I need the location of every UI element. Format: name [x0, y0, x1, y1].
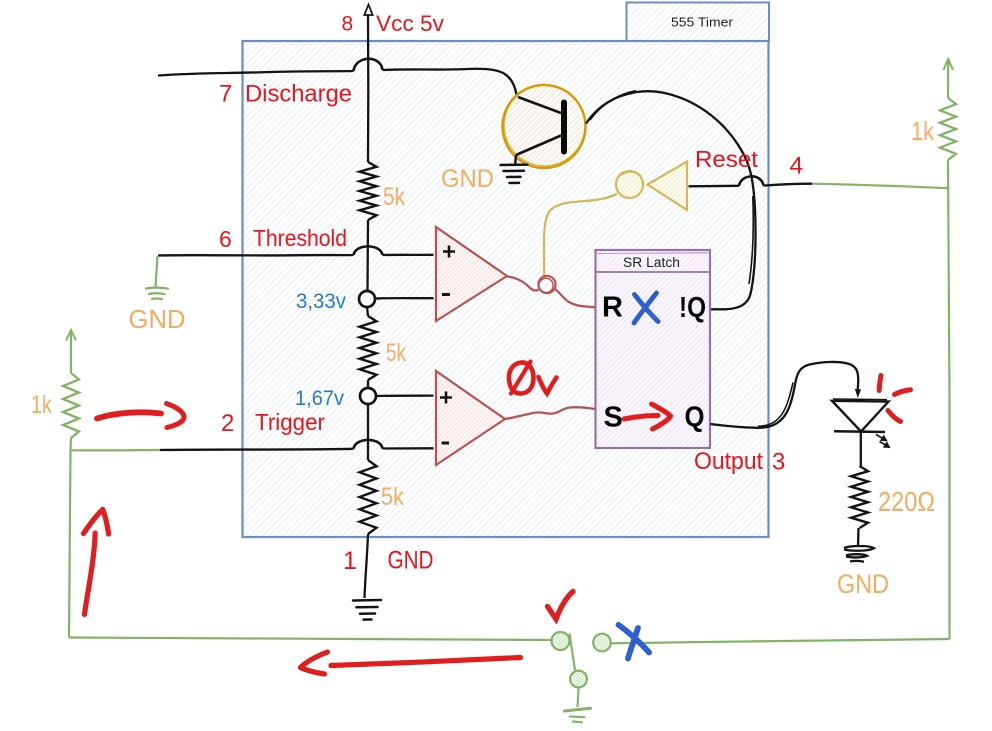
red LED rays: [879, 376, 910, 422]
transistor bar: [561, 100, 567, 155]
left rail down: [69, 451, 71, 638]
pin 7 discharge wire: [158, 71, 354, 76]
555 timer IC body: [243, 41, 769, 537]
reset wire to pin 4: [764, 184, 813, 186]
trigger green wire: [71, 449, 161, 452]
svg-text:SR Latch: SR Latch: [623, 255, 680, 270]
comp2 plus input wire: [376, 394, 434, 397]
switch ground: [565, 708, 591, 722]
LED D1 triangle: [832, 401, 889, 432]
svg-text:Threshold: Threshold: [253, 225, 347, 251]
inverter U2 triangle: [648, 162, 688, 211]
transistor Q1 circle: [503, 85, 586, 168]
svg-text:S: S: [604, 402, 623, 434]
SR latch U4 box: [596, 250, 711, 448]
svg-text:1: 1: [343, 547, 357, 575]
svg-text:!Q: !Q: [679, 292, 706, 324]
red 0v annotation: [509, 362, 557, 394]
comp1 output wire to R: [507, 277, 539, 291]
wire: [367, 307, 368, 316]
svg-text:Output: Output: [694, 448, 763, 475]
LED ground: [844, 546, 874, 562]
wire loop to R input: [555, 289, 596, 307]
switch left contact: [552, 632, 570, 650]
Q output wire to LED: [711, 362, 859, 428]
pin 1 ground: [353, 600, 381, 620]
svg-text:6: 6: [219, 226, 232, 252]
svg-text:1k: 1k: [911, 116, 935, 146]
wire chain to node: [366, 220, 369, 291]
svg-text:GND: GND: [441, 165, 494, 193]
bottom rail left segment: [69, 638, 552, 641]
right rail arrow shaft: [947, 59, 949, 98]
resistor 5k bottom: [360, 460, 377, 534]
wire hop over chain: [354, 59, 383, 71]
resistor wire to ground: [857, 528, 860, 546]
svg-text:R: R: [602, 292, 623, 324]
svg-text:5k: 5k: [383, 183, 405, 211]
svg-text:Q: Q: [685, 402, 705, 434]
switch pivot: [570, 671, 587, 688]
emitter wire: [514, 155, 517, 164]
svg-text:GND: GND: [129, 304, 186, 334]
blue X at switch: [619, 625, 650, 659]
node 1,67v: [360, 388, 376, 404]
pin 4 green wire: [812, 184, 949, 189]
transistor base line: [518, 97, 561, 113]
svg-text:220Ω: 220Ω: [878, 486, 935, 517]
resistor 1k right: [940, 98, 956, 160]
comparator 2 plus sign: [440, 392, 452, 404]
node 3,33v: [359, 291, 375, 307]
svg-text:GND: GND: [388, 547, 434, 575]
right rail arrowhead: [944, 59, 954, 70]
wire to comp2 minus: [383, 447, 434, 450]
svg-text:5k: 5k: [381, 483, 404, 511]
red annotation long left arrow: [301, 652, 521, 674]
comp2 output wire to S: [505, 407, 596, 419]
svg-text:3,33v: 3,33v: [296, 290, 346, 313]
svg-text:555 Timer: 555 Timer: [671, 15, 734, 30]
svg-text:8: 8: [342, 13, 354, 36]
comparator 1 minus sign: [442, 293, 450, 296]
resistor 1k left: [63, 373, 79, 438]
svg-text:Vcc 5v: Vcc 5v: [376, 11, 444, 36]
wire to comparator plus: [383, 254, 434, 256]
inverter output gold wire: [544, 194, 617, 276]
right rail wire: [948, 160, 950, 639]
svg-text:Trigger: Trigger: [255, 409, 325, 435]
left arrow shaft: [70, 331, 72, 373]
LED emission arrows: [876, 435, 889, 448]
555 Timer label tab: [627, 3, 770, 42]
switch right contact: [593, 634, 611, 652]
red checkmark: [548, 592, 574, 620]
LED wire: [860, 432, 862, 466]
Q wire end arrow tip: [856, 390, 861, 397]
ground green left: [146, 288, 168, 300]
comp1 minus input wire: [375, 297, 434, 300]
wire loop junction: [538, 276, 555, 293]
resistor 5k top: [360, 162, 377, 220]
bottom rail right segment: [612, 639, 950, 643]
switch gnd wire: [578, 689, 579, 708]
svg-text:4: 4: [790, 153, 804, 180]
pin 1 wire: [365, 534, 369, 598]
op-amp comparator U3: [436, 371, 505, 465]
svg-text:1,67v: 1,67v: [295, 387, 344, 410]
wire: [367, 380, 369, 388]
pin 8 arrowhead: [364, 5, 372, 16]
svg-text:Discharge: Discharge: [245, 81, 352, 108]
op-amp comparator U1: [436, 227, 507, 321]
svg-text:3: 3: [772, 449, 785, 476]
transistor emitter line: [516, 136, 561, 156]
reset wire hop: [739, 176, 764, 185]
svg-text:GND: GND: [837, 569, 889, 599]
svg-text:5k: 5k: [386, 339, 406, 367]
comparator 1 plus sign: [443, 246, 455, 258]
svg-text:Reset: Reset: [695, 146, 759, 172]
pin 2 trigger wire: [160, 449, 354, 450]
wire to junction: [69, 438, 72, 451]
comparator 2 minus sign: [442, 442, 450, 445]
red annotation up arrow: [84, 510, 109, 615]
left rail arrowhead: [66, 330, 76, 341]
SR latch header line: [596, 271, 711, 273]
trigger hop: [354, 440, 383, 449]
threshold green gnd wire: [156, 256, 158, 287]
collector wire to latch !Q: [586, 91, 756, 309]
svg-text:2: 2: [221, 410, 234, 437]
svg-text:7: 7: [219, 81, 232, 108]
reset wire from inverter: [689, 185, 740, 188]
red arrow S to Q: [624, 404, 671, 429]
threshold hop: [354, 246, 383, 255]
wire to transistor base: [383, 69, 517, 97]
inverter bubble: [616, 171, 643, 198]
resistor 220 ohm: [851, 466, 868, 528]
svg-text:1k: 1k: [31, 391, 52, 419]
switch lever: [570, 634, 576, 671]
wire: [367, 404, 369, 460]
LED cathode bar: [834, 430, 885, 433]
transistor ground: [501, 165, 528, 183]
red annotation arrow at trigger: [97, 404, 184, 428]
blue X annotation on R: [634, 293, 658, 323]
resistor 5k middle: [360, 316, 377, 380]
pin 8 Vcc wire: [367, 15, 370, 163]
pin 6 threshold wire: [158, 254, 354, 257]
